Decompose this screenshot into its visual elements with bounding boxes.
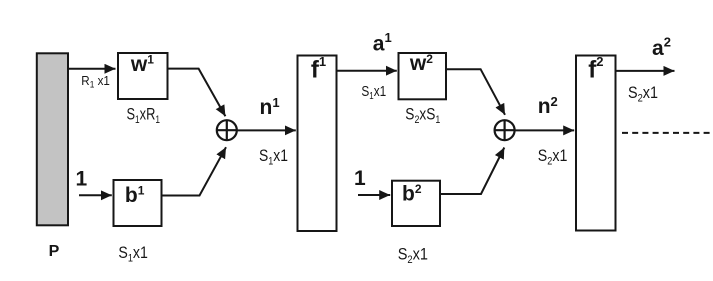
- svg-text:a1: a1: [373, 30, 392, 56]
- svg-text:a2: a2: [652, 35, 671, 61]
- svg-text:n1: n1: [260, 95, 280, 119]
- svg-text:S1x1: S1x1: [361, 82, 386, 101]
- svg-text:S2x1: S2x1: [538, 147, 568, 168]
- svg-text:P: P: [49, 243, 60, 260]
- svg-text:S2x1: S2x1: [628, 84, 658, 105]
- svg-text:S2x1: S2x1: [398, 246, 428, 267]
- svg-text:1: 1: [76, 168, 88, 191]
- svg-text:1: 1: [354, 167, 366, 190]
- svg-text:n2: n2: [538, 94, 558, 118]
- svg-text:R1 x1: R1 x1: [81, 74, 110, 90]
- svg-text:S1x1: S1x1: [259, 147, 288, 168]
- svg-text:S1xR1: S1xR1: [127, 105, 160, 127]
- svg-text:S2xS1: S2xS1: [405, 105, 440, 126]
- svg-text:S1x1: S1x1: [118, 244, 147, 265]
